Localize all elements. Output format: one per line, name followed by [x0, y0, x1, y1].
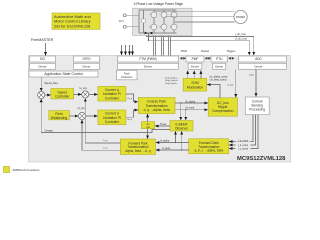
block Forward Park Transformation [120, 139, 155, 155]
svg-text:Controller: Controller [55, 94, 70, 98]
wire I_dcb from ADC driver [255, 69, 257, 96]
wire Speed_Req [40, 77, 42, 91]
transistor Q3 [171, 12, 177, 18]
peripheral FTM driver [118, 63, 179, 69]
wire PWM gate lines 4 [132, 45, 134, 55]
svg-text:Controller: Controller [105, 96, 120, 100]
wire bridge leg 3 [173, 10, 175, 33]
svg-text:I_c_comp: I_c_comp [238, 148, 249, 150]
svg-text:Modulation: Modulation [187, 86, 203, 90]
wire PWM gate lines 1 [121, 45, 123, 55]
wire Us_beta [175, 109, 208, 111]
wire duty cycle c to PMF [200, 71, 202, 79]
wire Omega feedback to J1 [41, 99, 170, 132]
wire bottom dc bus [139, 32, 177, 34]
peripheral SCI [30, 56, 56, 62]
svg-text:I_dcb: I_dcb [248, 75, 254, 77]
peripheral GPIO [74, 56, 100, 62]
shunt current sense mark [145, 32, 153, 35]
svg-text:Set for S12ZVML128: Set for S12ZVML128 [54, 23, 90, 28]
block Forward Clark Transformation [189, 139, 229, 154]
svg-text:U_dc_bus: U_dc_bus [235, 36, 248, 40]
block E-BEMF Observer [170, 121, 193, 132]
peripheral FTM (PWM) [118, 56, 179, 62]
svg-text:PMSM: PMSM [236, 15, 245, 19]
transistor Q2 [161, 12, 167, 18]
svg-text:I_dc_bus: I_dc_bus [235, 32, 247, 36]
Application State Control bar [29, 71, 98, 77]
wire bridge leg 2 [163, 10, 165, 33]
wire FreeMASTER to SCI [45, 43, 47, 55]
wire shunt to sense lines [148, 33, 150, 40]
svg-text:SCI: SCI [40, 57, 45, 61]
peripheral PTU [211, 56, 228, 62]
wire Is_d feedback to J3 [82, 120, 120, 150]
label I_a_comp [236, 139, 251, 142]
peripheral ADC driver [239, 63, 287, 69]
wire phase sense pair A [153, 36, 155, 56]
svg-text:Is_alpha: Is_alpha [160, 140, 170, 143]
peripheral PMF [186, 56, 204, 62]
svg-text:Iq_req: Iq_req [79, 87, 87, 90]
wire PWM gate lines 3 [129, 45, 131, 55]
node 12V supply terminals [123, 14, 126, 17]
svg-text:Speed_Req: Speed_Req [45, 82, 59, 85]
svg-text:Controller: Controller [105, 120, 120, 124]
wire Speed Controller to J2, Iq_req [74, 93, 82, 95]
svg-text:Us_beta: Us_beta [185, 107, 195, 110]
transistor Q5 [161, 24, 167, 30]
wire J1 to Speed Controller [45, 94, 51, 96]
node tap Us_beta [185, 109, 186, 110]
wire phase A to motor [155, 11, 234, 13]
svg-text:ADC: ADC [255, 57, 262, 61]
power stage box [133, 8, 193, 35]
wire I_b_comp [229, 115, 255, 145]
wire Us_d into Inverse Park [126, 110, 138, 117]
wire supply negative [126, 26, 139, 28]
MCU block MC9S12ZVML128 [29, 56, 291, 163]
wire Field Weakening to J3, Id_req [69, 115, 78, 117]
connector FTM-PMF [180, 57, 186, 60]
wire comp voltages to SVM [207, 85, 220, 98]
node shunt tap [148, 36, 149, 37]
transistor Q1 [151, 12, 157, 18]
svg-text:Us_alpha: Us_alpha [185, 100, 196, 103]
peripheral PTU driver [213, 63, 226, 69]
svg-text:Us_beta_comp: Us_beta_comp [210, 79, 227, 82]
block Inverse Park Transformation [138, 98, 175, 114]
svg-text:Duty Cycle c: Duty Cycle c [165, 82, 178, 85]
peripheral SCI driver [30, 63, 56, 69]
peripheral PMF driver [188, 63, 202, 69]
svg-text:Driver: Driver [255, 64, 263, 68]
wire Is_beta to Forward Park [156, 149, 189, 151]
wire J3 to Current d controller [86, 115, 98, 117]
svg-text:d, q →alpha, beta: d, q →alpha, beta [144, 108, 170, 112]
wire Us_alpha [175, 102, 208, 104]
wire Theta to sin cos [155, 125, 170, 127]
block Current d Limitation PI Controller [98, 110, 126, 125]
svg-text:Driver: Driver [215, 64, 223, 68]
svg-text:Driver: Driver [83, 64, 91, 68]
wire I_c_comp [229, 115, 258, 149]
wire supply positive [126, 14, 139, 16]
wire dc feed vertical [138, 10, 140, 33]
svg-text:MC9S12ZVML128: MC9S12ZVML128 [237, 156, 286, 162]
connector PTU-ADC [228, 57, 234, 60]
label I_b_comp [236, 144, 251, 147]
summing junction J3 [79, 113, 86, 120]
node tap Us_alpha [180, 102, 181, 103]
AMMCLib callout box [52, 13, 100, 29]
wire bridge leg 1 [153, 10, 155, 33]
wire U_dc_bus to ADC [149, 40, 250, 55]
svg-text:Theta: Theta [160, 123, 167, 126]
wire duty cycle b to PMF [193, 71, 195, 79]
wire Is_q feedback to J2 [85, 98, 120, 143]
node tap Is_beta [181, 149, 182, 150]
wire PWM gate lines 2 [125, 45, 127, 55]
svg-text:Compensation: Compensation [212, 109, 233, 113]
svg-text:Id_req: Id_req [77, 107, 85, 110]
svg-text:Us_d: Us_d [127, 119, 133, 121]
summing junction J2 [82, 91, 89, 98]
block Field Weakening [49, 111, 70, 120]
svg-text:Triggers: Triggers [226, 50, 236, 53]
svg-text:Observer: Observer [175, 127, 189, 131]
svg-text:PMF: PMF [192, 57, 199, 61]
wire phase B to motor [165, 16, 234, 18]
transistor Q4 [151, 24, 157, 30]
svg-text:FTM (PWM): FTM (PWM) [139, 57, 156, 61]
svg-text:SVM: SVM [191, 81, 198, 85]
svg-text:PWM: PWM [181, 50, 187, 53]
block Current q Limitation PI Controller [98, 86, 126, 101]
summing junction J1 [38, 92, 45, 99]
wire Us_alpha to E-BEMF [180, 103, 182, 120]
svg-text:alpha, beta →d, q: alpha, beta →d, q [125, 149, 150, 153]
legend AMMCLib [4, 167, 10, 173]
svg-text:Reload: Reload [201, 50, 210, 53]
svg-text:Us_q: Us_q [127, 98, 133, 100]
Fault Protection box [117, 70, 138, 80]
svg-text:Processing: Processing [249, 108, 265, 112]
node tap Is_alpha [175, 142, 176, 143]
wire I_a_comp [229, 115, 253, 142]
svg-text:FreeMASTER: FreeMASTER [31, 38, 54, 42]
wire Is_beta to E-BEMF [181, 131, 183, 150]
svg-text:AMMCLib Functions: AMMCLib Functions [13, 168, 41, 172]
svg-text:Protection: Protection [121, 76, 133, 79]
svg-text:U_dcb: U_dcb [227, 85, 234, 87]
svg-text:a, b, c →alpha, beta: a, b, c →alpha, beta [194, 149, 223, 153]
wire phase C to motor [175, 21, 234, 23]
wire Is_alpha to Forward Park [156, 142, 189, 144]
connector PMF-PTU [205, 57, 211, 60]
label I_c_comp [236, 147, 251, 150]
transistor Q6 [171, 24, 177, 30]
peripheral ADC [239, 56, 287, 62]
svg-text:Driver: Driver [144, 64, 152, 68]
wire J2 to Current q controller [89, 93, 98, 95]
svg-text:Is_beta: Is_beta [162, 147, 171, 150]
wire phase sense pair C [168, 36, 170, 56]
svg-text:Application State Control: Application State Control [44, 72, 83, 76]
svg-text:Duty Cycle a: Duty Cycle a [165, 76, 178, 79]
wire U_dcb from ADC driver [235, 69, 237, 97]
svg-text:Weakening: Weakening [51, 116, 68, 120]
svg-text:3-Phase Low-Voltage Power Stag: 3-Phase Low-Voltage Power Stage [134, 2, 184, 6]
svg-text:Duty Cycle b: Duty Cycle b [165, 79, 178, 82]
svg-text:I_a_comp: I_a_comp [238, 140, 249, 142]
wire phase sense pair B [161, 36, 163, 56]
svg-text:12 V: 12 V [119, 19, 125, 23]
wire sincos to Inverse Park [147, 114, 149, 122]
svg-text:Driver: Driver [191, 64, 199, 68]
wire Is_alpha to E-BEMF [175, 131, 177, 142]
svg-text:Omega: Omega [44, 129, 53, 132]
svg-text:PTU: PTU [216, 57, 223, 61]
svg-text:GPIO: GPIO [83, 57, 91, 61]
block DC_bus Ripple Compensation [208, 98, 237, 116]
wire sincos to Forward Park [147, 129, 149, 139]
svg-text:I_b_comp: I_b_comp [238, 145, 249, 147]
wire top dc bus [139, 9, 177, 11]
block Current Sensing Processing [245, 97, 269, 115]
block SVM Modulation [183, 78, 207, 91]
peripheral GPIO driver [74, 63, 100, 69]
wire I_dc_bus to ADC [146, 37, 254, 56]
svg-text:Driver: Driver [39, 64, 47, 68]
wire duty cycle a to PMF [187, 71, 189, 79]
block Speed Controller [51, 89, 74, 99]
wire Us_q into Inverse Park [126, 94, 138, 102]
block sin cos [141, 122, 154, 129]
capacitor C dc-link [143, 10, 145, 33]
motor PMSM [234, 10, 247, 23]
wire Us_beta to E-BEMF [185, 110, 187, 120]
